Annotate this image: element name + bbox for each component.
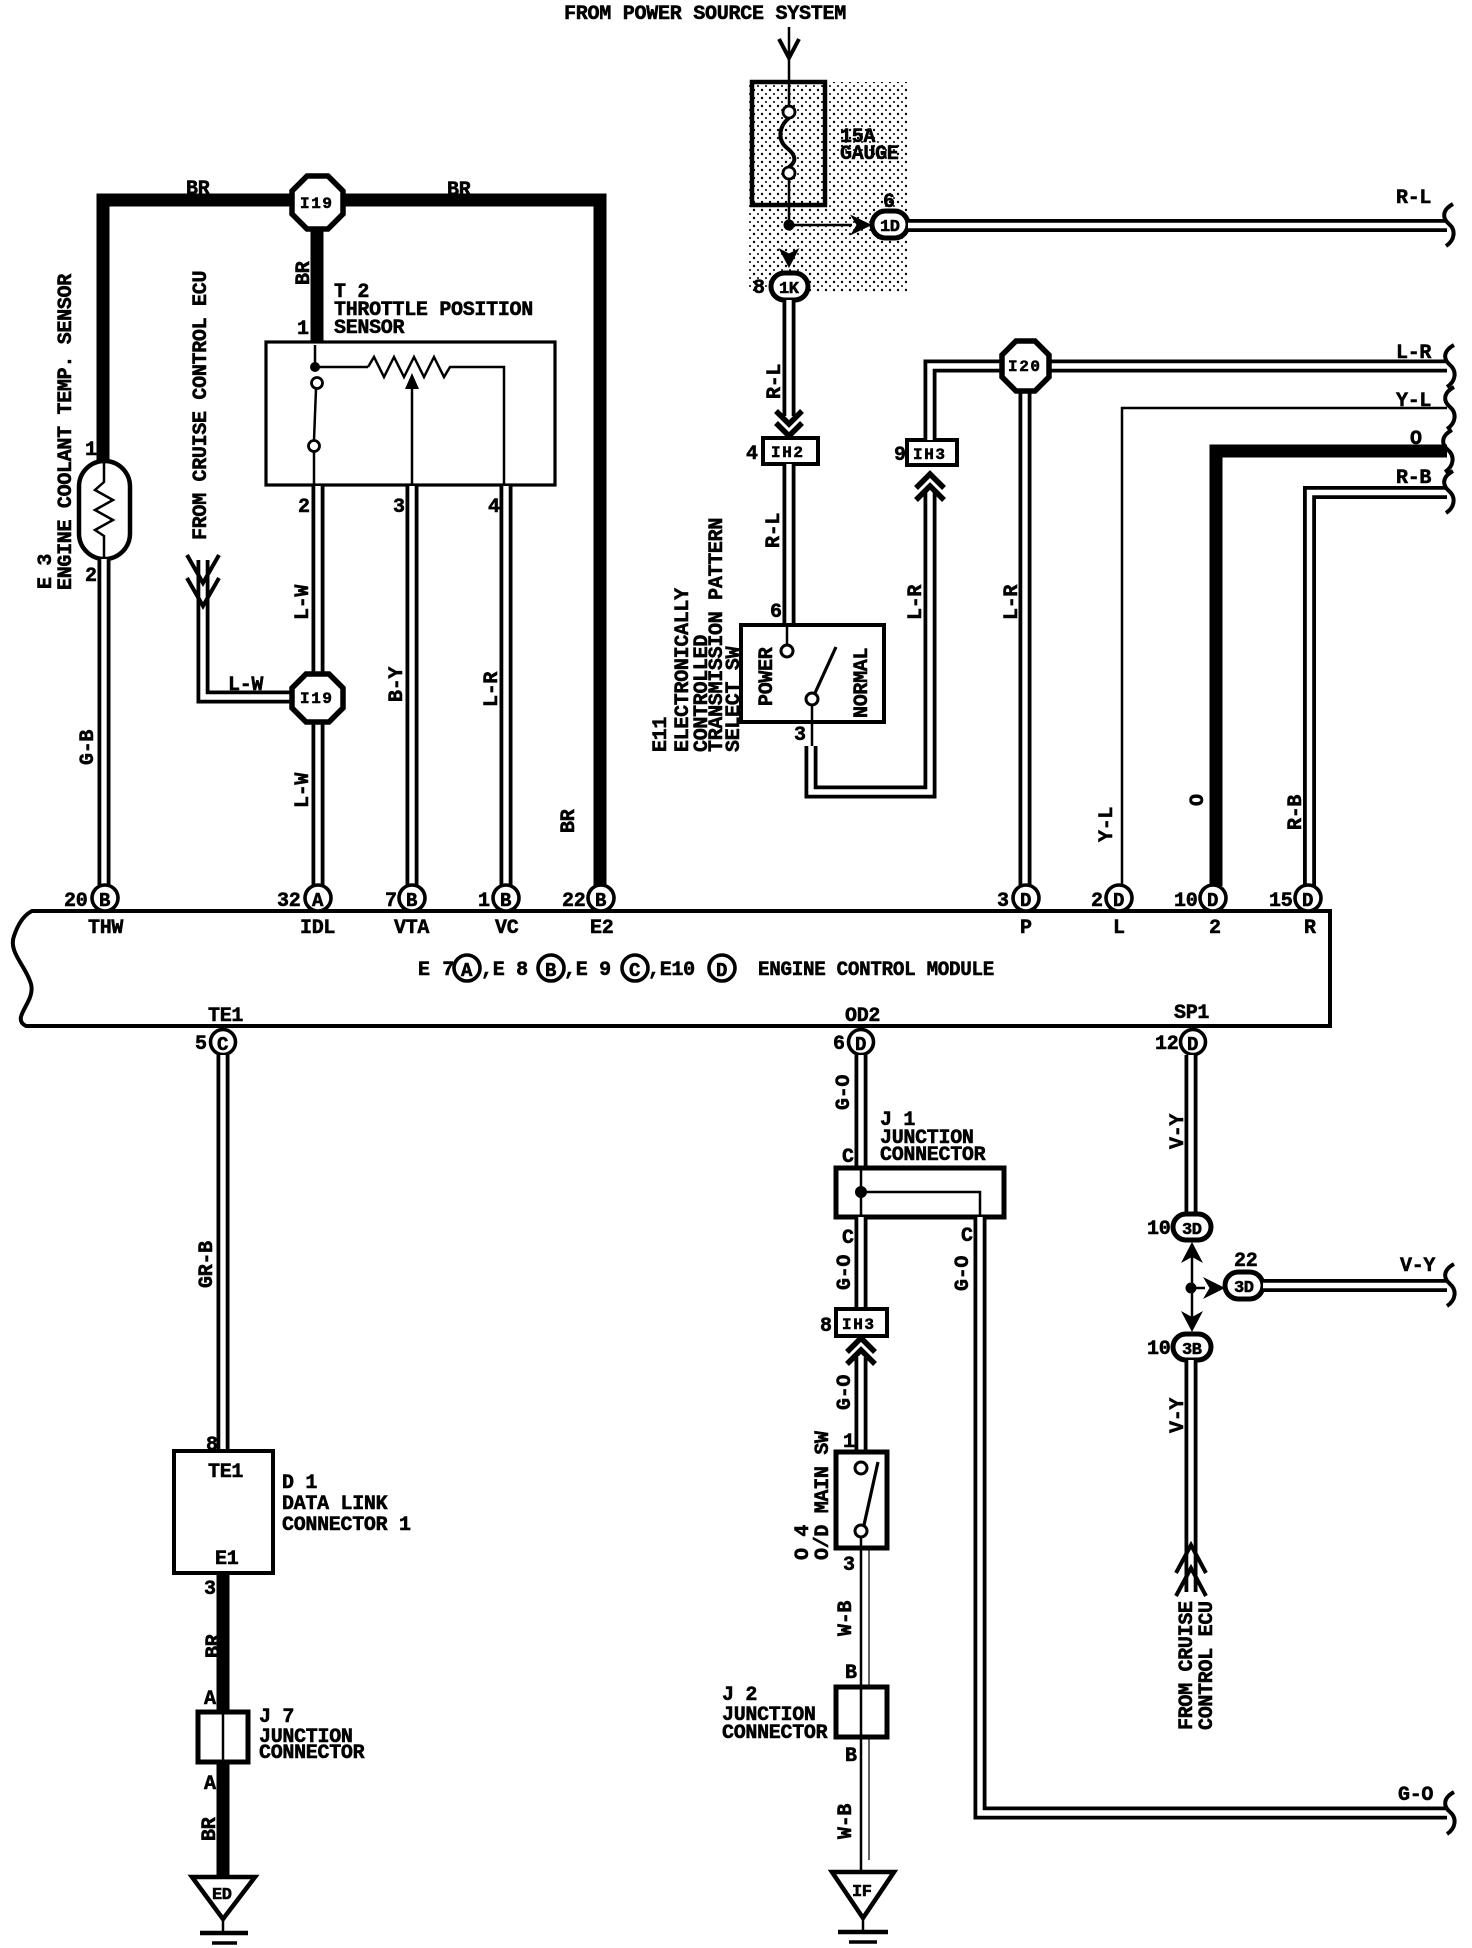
pin 12 D SP1 <box>1155 1002 1209 1056</box>
coolant temp sensor E3 body <box>79 439 130 588</box>
engine control module band <box>13 911 1330 1026</box>
wire W-B from J2 to ground IF <box>835 1737 869 1874</box>
pin 32 A IDL <box>277 885 335 940</box>
svg-text:CONTROL ECU: CONTROL ECU <box>1196 1601 1219 1730</box>
svg-text:C: C <box>217 1034 228 1056</box>
svg-text:C: C <box>842 1227 854 1250</box>
svg-text:D: D <box>855 1034 866 1056</box>
node V-Y junction <box>1186 1257 1206 1318</box>
svg-text:2: 2 <box>1209 917 1221 940</box>
pin 15 D R <box>1269 885 1321 940</box>
svg-text:L-R: L-R <box>1001 585 1024 620</box>
svg-text:L-W: L-W <box>292 773 315 808</box>
svg-text:POWER: POWER <box>756 647 779 706</box>
pin 6 D OD2 <box>833 1005 880 1056</box>
svg-text:B-Y: B-Y <box>386 667 409 702</box>
svg-text:1D: 1D <box>880 218 900 237</box>
wire from cruise control ECU to I119 lower <box>203 560 294 697</box>
svg-text:TE1: TE1 <box>208 1005 243 1028</box>
svg-text:2: 2 <box>1091 890 1103 913</box>
svg-text:BR: BR <box>558 809 581 833</box>
svg-text:BR: BR <box>447 179 471 202</box>
svg-text:3D: 3D <box>1234 1279 1254 1298</box>
svg-text:W-B: W-B <box>835 1804 858 1839</box>
svg-text:,E10: ,E10 <box>648 959 695 982</box>
svg-text:8: 8 <box>820 1315 832 1338</box>
svg-text:D: D <box>1113 890 1124 912</box>
wire R-L to right edge <box>908 187 1454 246</box>
wire V-Y from 3D to right edge <box>1263 1255 1455 1306</box>
wire junction to 1D <box>789 224 852 227</box>
svg-text:Y-L: Y-L <box>1096 807 1119 842</box>
svg-text:8: 8 <box>753 277 765 300</box>
svg-text:1: 1 <box>297 318 309 341</box>
connector 3B pin 10 <box>1147 1334 1211 1361</box>
throttle position sensor T2 <box>266 281 555 519</box>
svg-text:O: O <box>1410 428 1422 451</box>
svg-text:GR-B: GR-B <box>196 1241 219 1288</box>
svg-text:IH3: IH3 <box>913 446 947 464</box>
connector 3D pin 10 <box>1147 1214 1211 1241</box>
svg-text:D: D <box>716 960 727 982</box>
pin 5 C TE1 <box>195 1005 243 1056</box>
svg-text:15: 15 <box>1269 890 1292 913</box>
svg-text:D: D <box>1207 890 1218 912</box>
arrow up into 3D <box>1181 1242 1203 1263</box>
label E11 ELECTRONICALLY CONTROLLED TRANSMISSION PATTERN SELECT SW <box>650 518 746 752</box>
svg-text:D: D <box>1187 1034 1198 1056</box>
svg-text:20: 20 <box>64 890 87 913</box>
wire L-W from T2 pin 2 to I119 lower <box>292 486 318 676</box>
svg-text:G-B: G-B <box>77 730 100 765</box>
svg-text:W-B: W-B <box>835 1601 858 1636</box>
svg-text:3: 3 <box>997 890 1009 913</box>
arrow down into 3B <box>1181 1311 1203 1332</box>
svg-text:B: B <box>406 890 417 912</box>
svg-text:,E 9: ,E 9 <box>564 959 611 982</box>
svg-text:9: 9 <box>894 444 906 467</box>
connector I119 lower <box>292 674 343 722</box>
svg-text:CONNECTOR: CONNECTOR <box>880 1144 986 1167</box>
svg-text:7: 7 <box>385 890 397 913</box>
svg-text:3: 3 <box>393 496 405 519</box>
connector 1K pin 8 <box>753 273 808 300</box>
feathered arrow from cruise control ECU (right) <box>1176 1545 1206 1596</box>
svg-text:BR: BR <box>293 261 316 285</box>
svg-text:L-R: L-R <box>1396 342 1431 365</box>
node T2 internal junction <box>315 345 368 367</box>
wire G-O from IH3 to O/D main switch <box>834 1356 861 1454</box>
svg-text:Y-L: Y-L <box>1396 390 1431 413</box>
switch IDL contact of T2 <box>312 378 323 389</box>
arrow right into 3D lower <box>1203 1277 1225 1299</box>
wire BR thick from coolant sensor to I119 <box>103 178 294 461</box>
svg-text:A: A <box>204 1773 216 1796</box>
svg-text:C: C <box>629 960 640 982</box>
label FROM CRUISE CONTROL ECU (right) <box>1176 1601 1219 1730</box>
svg-text:6: 6 <box>833 1033 845 1056</box>
svg-text:CONNECTOR 1: CONNECTOR 1 <box>282 1514 411 1537</box>
svg-text:FROM CRUISE CONTROL ECU: FROM CRUISE CONTROL ECU <box>190 271 213 540</box>
svg-text:FROM POWER SOURCE SYSTEM: FROM POWER SOURCE SYSTEM <box>564 3 846 26</box>
svg-text:VC: VC <box>495 917 519 940</box>
svg-text:A: A <box>461 960 473 982</box>
pin 20 B THW <box>64 885 123 940</box>
svg-text:R-L: R-L <box>1396 187 1431 210</box>
svg-text:6: 6 <box>770 601 782 624</box>
wire fuse to 1K, arrow down <box>779 248 800 268</box>
svg-text:1: 1 <box>85 439 97 462</box>
wire O thick from right edge to ECM pin 2 <box>1187 428 1453 886</box>
svg-text:E2: E2 <box>590 917 613 940</box>
wire BR from J7 to ground ED <box>199 1762 223 1880</box>
svg-text:L-W: L-W <box>228 674 263 697</box>
connector I119 upper <box>292 176 343 229</box>
svg-text:1K: 1K <box>779 280 800 299</box>
svg-text:I19: I19 <box>300 195 334 213</box>
svg-text:NORMAL: NORMAL <box>851 648 874 718</box>
svg-text:5: 5 <box>195 1033 207 1056</box>
chevron arrow into IH3 lower <box>847 1338 875 1364</box>
svg-text:TE1: TE1 <box>208 1461 243 1484</box>
svg-text:I19: I19 <box>300 690 334 708</box>
wiper arrow of T2 <box>411 388 414 485</box>
svg-text:B: B <box>500 890 511 912</box>
svg-text:G-O: G-O <box>834 1255 857 1290</box>
svg-text:2: 2 <box>85 565 97 588</box>
svg-text:G-O: G-O <box>1398 1784 1433 1807</box>
svg-text:R-B: R-B <box>1285 795 1308 830</box>
connector IH3 pin 9 <box>894 440 957 467</box>
wire BR thick from I119 down to throttle sensor pin 1 <box>293 227 317 344</box>
svg-text:3: 3 <box>204 1578 216 1601</box>
svg-text:4: 4 <box>488 496 500 519</box>
svg-text:10: 10 <box>1147 1338 1170 1361</box>
svg-text:ENGINE COOLANT TEMP. SENSOR: ENGINE COOLANT TEMP. SENSOR <box>55 274 78 590</box>
junction connector J1 <box>836 1109 1004 1217</box>
junction connector J7 <box>198 1706 365 1765</box>
svg-text:O: O <box>1187 794 1210 806</box>
wire L-R from I20 to right edge <box>1047 342 1455 387</box>
junction connector J2 <box>722 1684 887 1745</box>
transmission select switch E11 <box>741 625 884 746</box>
svg-text:4: 4 <box>746 443 758 466</box>
svg-text:V-Y: V-Y <box>1400 1255 1435 1278</box>
svg-text:R: R <box>1304 917 1316 940</box>
svg-text:IH2: IH2 <box>771 444 805 462</box>
connector IH3 pin 8 <box>820 1309 887 1338</box>
wire W-B from O4 to J2 <box>835 1548 869 1687</box>
svg-text:A: A <box>204 1688 216 1711</box>
connector 3D pin 22 <box>1225 1250 1263 1299</box>
svg-text:V-Y: V-Y <box>1167 1114 1190 1149</box>
svg-text:3: 3 <box>794 724 806 747</box>
svg-text:R-L: R-L <box>764 364 787 399</box>
wire loop from select switch pin 3 up to IH3 <box>794 489 930 792</box>
wire L-W from I119 lower to ECM pin IDL <box>292 720 318 886</box>
svg-text:BR: BR <box>203 1634 226 1658</box>
svg-text:32: 32 <box>277 890 300 913</box>
svg-text:CONNECTOR: CONNECTOR <box>722 1722 828 1745</box>
pin 22 B E2 <box>562 885 614 940</box>
ground ED <box>192 1877 255 1943</box>
svg-text:BR: BR <box>186 178 210 201</box>
ground IF <box>832 1872 894 1942</box>
pin 2 D L <box>1091 885 1132 940</box>
chevron arrow into IH2 <box>776 411 802 436</box>
svg-text:G-O: G-O <box>952 1256 975 1291</box>
svg-text:DATA LINK: DATA LINK <box>282 1493 388 1516</box>
wire L-R from T2 pin 4 to ECM pin VC <box>481 486 506 886</box>
halftone shading around fuse <box>747 82 907 292</box>
wire BR from D1 pin 3 to J7 <box>203 1573 226 1712</box>
wire R-L from IH2 to select switch pin 6 <box>763 464 789 625</box>
pin 10 D 2 <box>1174 885 1226 940</box>
svg-text:3D: 3D <box>1182 1221 1202 1240</box>
svg-text:B: B <box>595 890 606 912</box>
svg-text:A: A <box>312 890 324 912</box>
svg-text:OD2: OD2 <box>845 1005 880 1028</box>
wire L-R from I20 down to ECM pin P <box>1001 390 1025 886</box>
pin 7 B VTA <box>385 885 429 940</box>
pin 1 B VC <box>478 885 519 940</box>
svg-text:22: 22 <box>562 890 585 913</box>
fuse 15A GAUGE <box>752 82 899 225</box>
svg-text:1: 1 <box>478 890 490 913</box>
svg-text:L-R: L-R <box>481 672 504 707</box>
wire Y-L from right edge to ECM pin L <box>1096 387 1455 886</box>
svg-text:R-B: R-B <box>1396 467 1431 490</box>
connector 1D pin 6 <box>872 191 908 238</box>
resistor T2 potentiometer track <box>368 357 504 485</box>
svg-text:VTA: VTA <box>394 917 429 940</box>
svg-text:ED: ED <box>212 1886 232 1905</box>
data link connector D1 <box>174 1451 411 1573</box>
svg-text:10: 10 <box>1147 1218 1170 1241</box>
chevron arrow into IH3 <box>916 474 944 500</box>
svg-text:G-O: G-O <box>834 1375 857 1410</box>
wire L-R from IH3 up to I20 <box>930 366 1004 440</box>
svg-text:CONNECTOR: CONNECTOR <box>259 1742 365 1765</box>
svg-text:C: C <box>961 1225 973 1248</box>
svg-text:3: 3 <box>843 1554 855 1577</box>
node: FROM POWER SOURCE SYSTEM feed <box>564 3 846 84</box>
svg-text:SELECT SW: SELECT SW <box>723 646 746 752</box>
wire V-Y from 3B to cruise control ECU <box>1167 1360 1191 1592</box>
wire GR-B from ECM pin TE1 to data link connector <box>196 1055 223 1457</box>
svg-text:L: L <box>1113 917 1125 940</box>
svg-text:B: B <box>545 960 556 982</box>
wire R-B from right edge to ECM pin R <box>1285 467 1454 886</box>
svg-text:R-L: R-L <box>763 513 786 548</box>
svg-text:ENGINE CONTROL MODULE: ENGINE CONTROL MODULE <box>758 959 994 982</box>
svg-text:SENSOR: SENSOR <box>334 317 405 340</box>
svg-text:D: D <box>1020 890 1031 912</box>
svg-text:IDL: IDL <box>300 917 335 940</box>
connector I20 <box>1002 341 1049 391</box>
svg-text:10: 10 <box>1174 890 1197 913</box>
svg-text:12: 12 <box>1155 1033 1178 1056</box>
wire G-B from sensor to ECM pin THW <box>77 559 104 886</box>
wire G-O from J1 right branch to right edge <box>952 1217 1455 1834</box>
svg-text:B: B <box>845 1745 857 1768</box>
svg-text:V-Y: V-Y <box>1167 1398 1190 1433</box>
svg-text:E11: E11 <box>650 717 673 752</box>
svg-text:2: 2 <box>298 496 310 519</box>
svg-text:B: B <box>845 1662 857 1685</box>
wire V-Y from ECM pin SP1 to 3D <box>1167 1055 1191 1214</box>
svg-text:L-R: L-R <box>905 585 928 620</box>
svg-text:THW: THW <box>88 917 123 940</box>
node junction below fuse <box>784 220 795 231</box>
wire G-O from ECM pin OD2 to J1 <box>833 1055 861 1169</box>
svg-text:L-W: L-W <box>292 585 315 620</box>
svg-text:I20: I20 <box>1008 358 1042 376</box>
svg-text:IH3: IH3 <box>842 1316 876 1334</box>
label engine coolant temp sensor E3 <box>35 274 78 590</box>
svg-text:P: P <box>1020 917 1032 940</box>
connector IH2 pin 4 <box>746 438 818 466</box>
svg-text:D: D <box>1302 890 1313 912</box>
svg-text:D 1: D 1 <box>282 1472 317 1495</box>
O/D main switch O4 <box>792 1431 887 1577</box>
svg-text:G-O: G-O <box>833 1075 856 1110</box>
wire from power source into fuse <box>788 27 791 84</box>
pin 3 D P <box>997 885 1039 940</box>
wire R-L from 1K to IH2 <box>764 300 789 416</box>
wire G-O from J1 to IH3 <box>834 1217 861 1309</box>
svg-text:SP1: SP1 <box>1174 1002 1209 1025</box>
svg-text:BR: BR <box>199 1817 222 1841</box>
svg-text:O/D MAIN SW: O/D MAIN SW <box>812 1431 835 1560</box>
wire BR thick from I119 to ECM pin E2 <box>341 179 600 886</box>
svg-text:B: B <box>99 890 110 912</box>
svg-text:E1: E1 <box>215 1548 239 1571</box>
svg-text:E 7: E 7 <box>418 959 454 982</box>
feathered arrow from cruise control ECU <box>187 555 219 606</box>
svg-text:GAUGE: GAUGE <box>840 143 899 166</box>
svg-text:,E 8: ,E 8 <box>481 959 528 982</box>
wire B-Y from T2 pin 3 to ECM pin VTA <box>386 486 412 886</box>
svg-text:IF: IF <box>852 1883 872 1902</box>
svg-text:3B: 3B <box>1182 1341 1202 1360</box>
